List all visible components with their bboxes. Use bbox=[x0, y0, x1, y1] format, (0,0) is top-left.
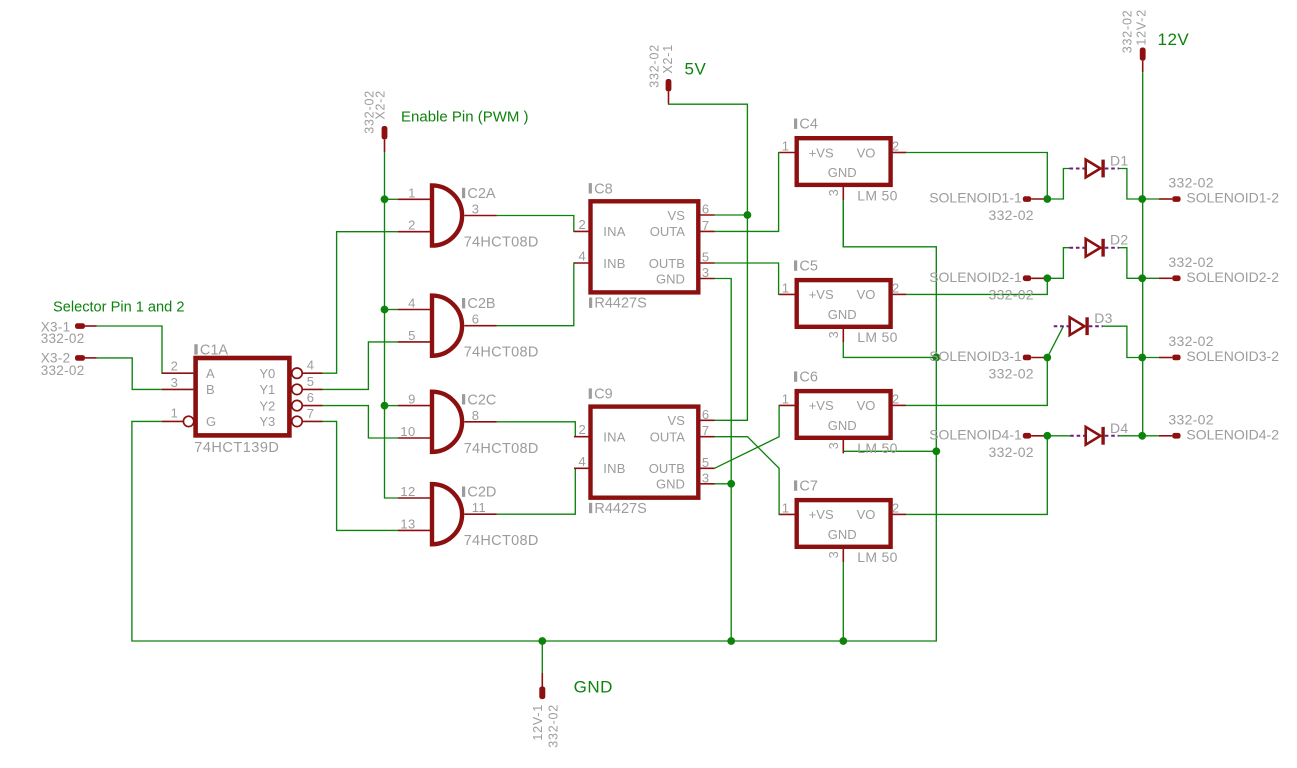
svg-text:1: 1 bbox=[171, 405, 179, 420]
svg-text:D2: D2 bbox=[1110, 232, 1129, 248]
svg-text:X2-2: X2-2 bbox=[374, 90, 388, 120]
svg-text:LM 50: LM 50 bbox=[857, 440, 897, 456]
svg-text:C8: C8 bbox=[594, 181, 613, 197]
svg-text:332-02: 332-02 bbox=[1168, 254, 1213, 270]
svg-text:3: 3 bbox=[702, 470, 710, 485]
svg-text:74HCT08D: 74HCT08D bbox=[464, 235, 539, 251]
svg-text:VO: VO bbox=[857, 287, 876, 302]
svg-text:GND: GND bbox=[828, 527, 857, 542]
svg-text:Y2: Y2 bbox=[259, 398, 275, 413]
svg-text:74HCT08D: 74HCT08D bbox=[464, 441, 539, 457]
svg-text:2: 2 bbox=[892, 391, 900, 406]
svg-text:VO: VO bbox=[857, 145, 876, 160]
svg-text:INA: INA bbox=[603, 224, 626, 239]
svg-text:INA: INA bbox=[603, 430, 626, 445]
svg-text:2: 2 bbox=[892, 500, 900, 515]
svg-text:5: 5 bbox=[702, 455, 710, 470]
svg-text:11: 11 bbox=[472, 500, 487, 515]
svg-text:5: 5 bbox=[307, 374, 315, 389]
svg-text:332-02: 332-02 bbox=[1168, 333, 1213, 349]
svg-text:SOLENOID4-1: SOLENOID4-1 bbox=[929, 426, 1022, 442]
svg-text:VO: VO bbox=[857, 507, 876, 522]
svg-text:GND: GND bbox=[574, 678, 613, 697]
svg-text:332-02: 332-02 bbox=[1121, 10, 1135, 54]
svg-text:C5: C5 bbox=[799, 259, 818, 275]
svg-text:OUTA: OUTA bbox=[650, 430, 685, 445]
svg-text:2: 2 bbox=[578, 422, 586, 437]
svg-text:R4427S: R4427S bbox=[594, 296, 646, 312]
svg-text:C2D: C2D bbox=[467, 485, 496, 501]
svg-text:12: 12 bbox=[400, 484, 415, 499]
svg-text:332-02: 332-02 bbox=[989, 287, 1034, 303]
svg-text:VS: VS bbox=[668, 208, 686, 223]
svg-text:+VS: +VS bbox=[809, 145, 834, 160]
svg-text:R4427S: R4427S bbox=[594, 501, 646, 517]
svg-text:10: 10 bbox=[400, 424, 415, 439]
svg-text:332-02: 332-02 bbox=[41, 331, 85, 346]
svg-text:C9: C9 bbox=[594, 387, 613, 403]
svg-text:SOLENOID3-1: SOLENOID3-1 bbox=[929, 348, 1022, 364]
svg-text:X2-1: X2-1 bbox=[661, 44, 675, 74]
svg-text:7: 7 bbox=[307, 406, 315, 421]
svg-text:GND: GND bbox=[828, 165, 857, 180]
svg-text:4: 4 bbox=[578, 249, 586, 264]
svg-text:SOLENOID2-1: SOLENOID2-1 bbox=[929, 269, 1022, 285]
svg-text:SOLENOID2-2: SOLENOID2-2 bbox=[1186, 269, 1279, 285]
svg-text:3: 3 bbox=[702, 265, 710, 280]
svg-text:332-02: 332-02 bbox=[547, 704, 561, 748]
svg-text:INB: INB bbox=[603, 256, 626, 271]
svg-text:SOLENOID1-2: SOLENOID1-2 bbox=[1186, 190, 1279, 206]
svg-text:Y3: Y3 bbox=[259, 414, 275, 429]
svg-text:INB: INB bbox=[603, 461, 626, 476]
svg-text:GND: GND bbox=[656, 271, 685, 286]
svg-text:3: 3 bbox=[171, 375, 179, 390]
svg-text:SOLENOID1-1: SOLENOID1-1 bbox=[929, 190, 1022, 206]
svg-text:2: 2 bbox=[408, 218, 416, 233]
svg-text:1: 1 bbox=[782, 500, 790, 515]
svg-text:2: 2 bbox=[171, 359, 179, 374]
svg-text:Selector Pin 1 and 2: Selector Pin 1 and 2 bbox=[53, 300, 184, 316]
svg-text:VS: VS bbox=[668, 413, 686, 428]
svg-text:13: 13 bbox=[400, 516, 415, 531]
svg-text:C2A: C2A bbox=[467, 186, 496, 202]
svg-text:332-02: 332-02 bbox=[989, 366, 1034, 382]
svg-text:1: 1 bbox=[408, 185, 416, 200]
svg-text:4: 4 bbox=[408, 296, 416, 311]
svg-text:5: 5 bbox=[408, 328, 416, 343]
svg-text:12V: 12V bbox=[1158, 30, 1190, 49]
svg-text:Y1: Y1 bbox=[259, 382, 275, 397]
svg-text:GND: GND bbox=[828, 418, 857, 433]
svg-text:332-02: 332-02 bbox=[1168, 411, 1213, 427]
svg-text:7: 7 bbox=[702, 218, 710, 233]
svg-text:C2C: C2C bbox=[467, 392, 496, 408]
svg-text:C2B: C2B bbox=[467, 296, 495, 312]
svg-text:1: 1 bbox=[782, 280, 790, 295]
svg-text:SOLENOID4-2: SOLENOID4-2 bbox=[1186, 426, 1279, 442]
svg-text:C4: C4 bbox=[799, 117, 818, 133]
svg-text:3: 3 bbox=[827, 442, 841, 449]
svg-text:LM 50: LM 50 bbox=[857, 329, 897, 345]
svg-text:G: G bbox=[206, 414, 216, 429]
svg-text:B: B bbox=[206, 382, 215, 397]
svg-text:SOLENOID3-2: SOLENOID3-2 bbox=[1186, 348, 1279, 364]
svg-text:C7: C7 bbox=[799, 479, 818, 495]
svg-text:LM 50: LM 50 bbox=[857, 187, 897, 203]
svg-text:3: 3 bbox=[827, 331, 841, 338]
svg-text:9: 9 bbox=[408, 392, 416, 407]
svg-text:2: 2 bbox=[578, 217, 586, 232]
svg-text:1: 1 bbox=[782, 138, 790, 153]
svg-text:74HCT08D: 74HCT08D bbox=[464, 533, 539, 549]
svg-text:GND: GND bbox=[656, 477, 685, 492]
svg-text:OUTA: OUTA bbox=[650, 224, 685, 239]
svg-text:8: 8 bbox=[472, 408, 480, 423]
svg-text:74HCT08D: 74HCT08D bbox=[464, 345, 539, 361]
svg-text:6: 6 bbox=[307, 390, 315, 405]
svg-text:A: A bbox=[206, 366, 215, 381]
svg-text:+VS: +VS bbox=[809, 287, 834, 302]
svg-text:+VS: +VS bbox=[809, 398, 834, 413]
svg-text:Enable Pin (PWM ): Enable Pin (PWM ) bbox=[401, 109, 529, 126]
svg-text:6: 6 bbox=[472, 312, 480, 327]
svg-text:12V-1: 12V-1 bbox=[531, 704, 545, 741]
svg-text:332-02: 332-02 bbox=[989, 207, 1034, 223]
svg-text:332-02: 332-02 bbox=[989, 444, 1034, 460]
svg-text:5V: 5V bbox=[685, 60, 707, 79]
svg-text:3: 3 bbox=[827, 551, 841, 558]
svg-text:12V-2: 12V-2 bbox=[1135, 9, 1149, 46]
svg-text:C1A: C1A bbox=[200, 342, 229, 358]
svg-text:6: 6 bbox=[702, 407, 710, 422]
svg-text:LM 50: LM 50 bbox=[857, 549, 897, 565]
svg-text:332-02: 332-02 bbox=[1168, 175, 1213, 191]
svg-text:7: 7 bbox=[702, 423, 710, 438]
svg-text:5: 5 bbox=[702, 250, 710, 265]
svg-text:3: 3 bbox=[472, 202, 480, 217]
svg-text:332-02: 332-02 bbox=[41, 363, 85, 378]
svg-text:Y0: Y0 bbox=[259, 366, 275, 381]
svg-text:2: 2 bbox=[892, 280, 900, 295]
svg-text:6: 6 bbox=[702, 202, 710, 217]
svg-text:D1: D1 bbox=[1110, 153, 1129, 169]
svg-text:VO: VO bbox=[857, 398, 876, 413]
svg-text:2: 2 bbox=[892, 138, 900, 153]
svg-text:+VS: +VS bbox=[809, 507, 834, 522]
svg-text:1: 1 bbox=[782, 391, 790, 406]
svg-text:3: 3 bbox=[827, 189, 841, 196]
svg-text:OUTB: OUTB bbox=[649, 461, 685, 476]
svg-text:332-02: 332-02 bbox=[648, 44, 662, 88]
svg-text:OUTB: OUTB bbox=[649, 256, 685, 271]
svg-text:D4: D4 bbox=[1110, 420, 1129, 436]
svg-text:GND: GND bbox=[828, 307, 857, 322]
svg-text:4: 4 bbox=[307, 358, 315, 373]
svg-text:4: 4 bbox=[578, 454, 586, 469]
svg-text:C6: C6 bbox=[799, 370, 818, 386]
svg-text:D3: D3 bbox=[1094, 310, 1113, 326]
svg-text:74HCT139D: 74HCT139D bbox=[194, 440, 279, 456]
